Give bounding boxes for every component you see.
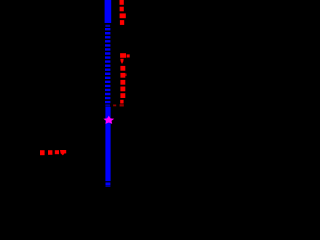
red left horizontal dashed arrow (40, 150, 45, 155)
blue trajectory: solid bottom segment (105, 107, 110, 181)
magenta goal star (103, 116, 114, 124)
blue trajectory: end dash (106, 182, 111, 185)
red trajectory: dim end dashes turning left (120, 104, 124, 106)
red trajectory: right hook dash (127, 54, 130, 57)
red trajectory: top dashed segment (120, 0, 124, 5)
blue trajectory: solid top segment (105, 0, 112, 23)
blue trajectory: dim tail dash (105, 104, 110, 106)
red trajectory: vertical dashed segment (120, 66, 125, 71)
blue trajectory: dim lead-in dash (105, 25, 110, 27)
red trajectory: corner dash (120, 53, 126, 58)
blue trajectory: dashed middle segment (105, 28, 110, 103)
red trajectory: down arrowhead (120, 59, 123, 64)
